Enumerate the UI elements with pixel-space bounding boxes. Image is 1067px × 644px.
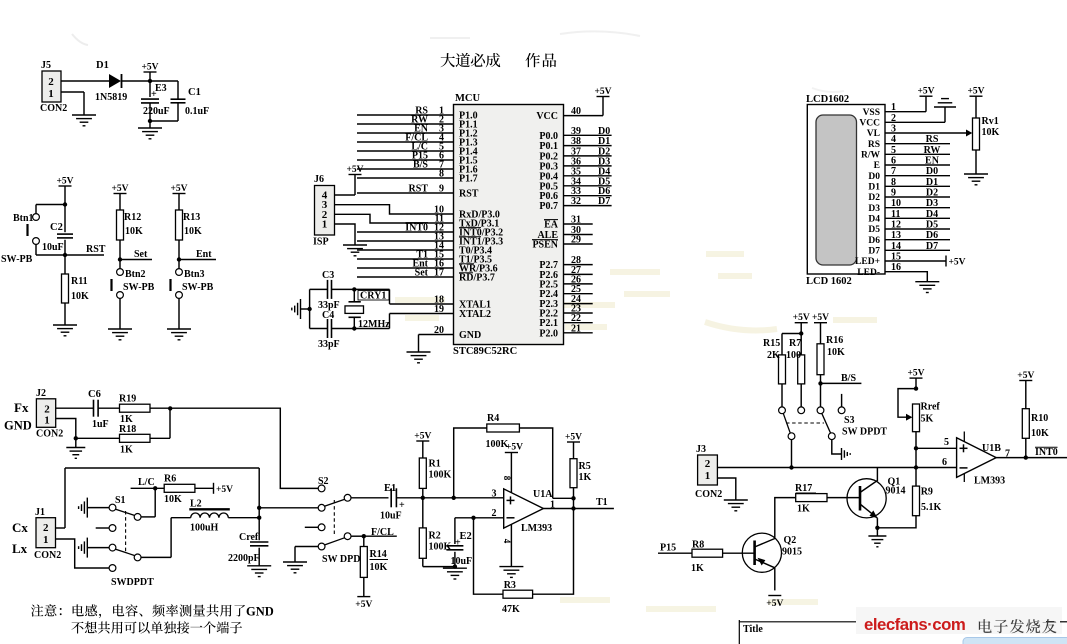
svg-text:LED+: LED+ xyxy=(855,257,880,267)
svg-text:S2: S2 xyxy=(318,476,329,487)
svg-text:VCC: VCC xyxy=(859,119,880,129)
svg-text:+5V: +5V xyxy=(216,485,233,495)
svg-text:D3: D3 xyxy=(868,204,880,214)
svg-text:R8: R8 xyxy=(692,540,704,551)
svg-text:100K: 100K xyxy=(486,439,509,450)
svg-text:+5V: +5V xyxy=(565,433,582,443)
svg-text:2: 2 xyxy=(705,458,711,470)
svg-text:1: 1 xyxy=(44,414,50,426)
svg-text:PSEN: PSEN xyxy=(532,240,558,251)
svg-text:SWDPDT: SWDPDT xyxy=(111,577,154,588)
svg-text:J2: J2 xyxy=(36,388,46,399)
svg-text:F/CL: F/CL xyxy=(371,527,394,538)
svg-text:C2: C2 xyxy=(50,222,63,233)
svg-text:+: + xyxy=(455,538,461,549)
svg-text:1: 1 xyxy=(705,470,711,482)
svg-text:Rv1: Rv1 xyxy=(982,116,999,127)
svg-text:R10: R10 xyxy=(1031,413,1048,424)
svg-text:17: 17 xyxy=(434,268,444,279)
svg-text:R11: R11 xyxy=(71,276,88,287)
svg-text:MCU: MCU xyxy=(455,93,480,104)
svg-text:+5V: +5V xyxy=(346,165,363,175)
svg-text:R13: R13 xyxy=(183,212,200,223)
svg-text:T1: T1 xyxy=(596,497,608,508)
svg-text:10uF: 10uF xyxy=(451,556,473,567)
svg-text:10K: 10K xyxy=(164,494,182,505)
svg-text:220uF: 220uF xyxy=(143,106,170,117)
svg-text:Rref: Rref xyxy=(921,402,941,413)
svg-text:GND: GND xyxy=(4,419,32,433)
svg-text:21: 21 xyxy=(571,323,581,334)
svg-text:+: + xyxy=(151,89,157,100)
svg-text:9: 9 xyxy=(439,184,444,195)
svg-text:0.1uF: 0.1uF xyxy=(185,106,209,117)
svg-text:+5V: +5V xyxy=(414,432,431,442)
svg-text:RS: RS xyxy=(926,134,939,145)
svg-text:CON2: CON2 xyxy=(36,429,63,440)
svg-text:1uF: 1uF xyxy=(92,419,109,430)
svg-text:+5V: +5V xyxy=(170,184,187,194)
svg-text:L2: L2 xyxy=(190,499,202,510)
svg-text:10K: 10K xyxy=(1031,428,1049,439)
svg-text:INT0: INT0 xyxy=(405,223,428,234)
svg-text:9015: 9015 xyxy=(782,547,802,558)
svg-text:D4: D4 xyxy=(868,215,880,225)
svg-text:elecfans·com: elecfans·com xyxy=(864,615,965,634)
svg-text:2: 2 xyxy=(43,522,49,534)
svg-text:J1: J1 xyxy=(35,507,45,518)
svg-text:R16: R16 xyxy=(826,335,843,346)
svg-text:10uF: 10uF xyxy=(380,511,402,522)
svg-text:E3: E3 xyxy=(155,83,167,94)
svg-text:+5V: +5V xyxy=(812,313,829,323)
svg-text:P1.7: P1.7 xyxy=(459,174,478,185)
svg-text:+5V: +5V xyxy=(793,313,810,323)
svg-text:+: + xyxy=(399,500,405,511)
svg-text:VL: VL xyxy=(867,129,880,139)
svg-text:XTAL2: XTAL2 xyxy=(459,309,491,320)
svg-text:D0: D0 xyxy=(868,172,880,182)
svg-text:VCC: VCC xyxy=(536,111,558,122)
svg-text:5: 5 xyxy=(944,437,949,448)
svg-text:+5V: +5V xyxy=(594,87,611,97)
svg-text:10K: 10K xyxy=(71,291,89,302)
svg-text:VSS: VSS xyxy=(863,108,880,118)
svg-text:100: 100 xyxy=(786,350,801,361)
svg-text:P0.7: P0.7 xyxy=(539,201,558,212)
svg-text:Btn2: Btn2 xyxy=(125,269,146,280)
svg-text:Btn1: Btn1 xyxy=(13,213,34,224)
svg-text:1N5819: 1N5819 xyxy=(95,92,127,103)
svg-text:10K: 10K xyxy=(125,226,143,237)
svg-text:LED-: LED- xyxy=(857,268,880,278)
svg-text:+5V: +5V xyxy=(917,87,934,97)
svg-text:10K: 10K xyxy=(370,562,388,573)
svg-text:31: 31 xyxy=(571,215,581,226)
svg-text:4: 4 xyxy=(502,539,512,544)
svg-text:R19: R19 xyxy=(119,393,136,404)
svg-text:R15: R15 xyxy=(763,338,780,349)
svg-text:D6: D6 xyxy=(926,230,938,241)
svg-text:E2: E2 xyxy=(460,531,472,542)
svg-text:20: 20 xyxy=(434,325,444,336)
svg-text:B/S: B/S xyxy=(841,373,856,384)
svg-text:+5V: +5V xyxy=(1017,371,1034,381)
svg-text:+5V: +5V xyxy=(766,599,783,609)
svg-text:SW-PB: SW-PB xyxy=(1,254,33,265)
svg-text:RS: RS xyxy=(868,140,880,150)
svg-text:D1: D1 xyxy=(868,183,880,193)
svg-text:100K: 100K xyxy=(429,542,452,553)
svg-text:32: 32 xyxy=(571,196,581,207)
svg-text:E1: E1 xyxy=(384,483,396,494)
svg-text:LM393: LM393 xyxy=(521,523,552,534)
svg-text:Btn3: Btn3 xyxy=(184,269,205,280)
svg-text:Lx: Lx xyxy=(12,541,28,556)
svg-text:+5V: +5V xyxy=(949,258,966,268)
svg-text:D6: D6 xyxy=(868,236,880,246)
svg-text:R12: R12 xyxy=(124,212,141,223)
svg-text:Ent: Ent xyxy=(196,249,212,260)
svg-text:R1: R1 xyxy=(429,459,441,470)
svg-text:D1: D1 xyxy=(926,177,938,188)
svg-text:D4: D4 xyxy=(926,209,938,220)
svg-text:2K: 2K xyxy=(767,350,780,361)
svg-text:2200pF: 2200pF xyxy=(228,553,260,564)
svg-text:1K: 1K xyxy=(120,445,133,456)
svg-text:R3: R3 xyxy=(504,580,516,591)
svg-text:U1A: U1A xyxy=(533,489,553,500)
svg-text:19: 19 xyxy=(434,304,444,315)
svg-text:R2: R2 xyxy=(429,531,441,542)
svg-text:D5: D5 xyxy=(868,225,880,235)
svg-text:D0: D0 xyxy=(926,166,938,177)
svg-text:RST: RST xyxy=(86,244,106,255)
svg-text:CRY1: CRY1 xyxy=(360,291,386,302)
svg-text:10uF: 10uF xyxy=(42,242,64,253)
svg-text:C6: C6 xyxy=(88,389,101,400)
svg-text:5K: 5K xyxy=(921,414,934,425)
svg-text:+5V: +5V xyxy=(355,600,372,610)
svg-text:+5V: +5V xyxy=(111,184,128,194)
svg-text:D2: D2 xyxy=(868,193,880,203)
svg-text:+5V: +5V xyxy=(141,63,158,73)
svg-text:RST: RST xyxy=(409,184,429,195)
svg-text:R9: R9 xyxy=(921,487,933,498)
svg-text:9014: 9014 xyxy=(886,486,906,497)
svg-text:Title: Title xyxy=(743,624,763,635)
svg-text:R/W: R/W xyxy=(861,151,881,161)
svg-text:SW-PB: SW-PB xyxy=(123,282,155,293)
svg-text:40: 40 xyxy=(571,106,581,117)
svg-text:Fx: Fx xyxy=(14,400,29,415)
svg-text:D2: D2 xyxy=(926,188,938,199)
svg-text:U1B: U1B xyxy=(982,443,1001,454)
svg-text:EA: EA xyxy=(544,220,559,231)
svg-text:1: 1 xyxy=(322,219,328,231)
svg-text:ISP: ISP xyxy=(313,237,329,248)
svg-text:LCD 1602: LCD 1602 xyxy=(806,276,852,287)
svg-text:+5V: +5V xyxy=(967,87,984,97)
svg-text:1: 1 xyxy=(48,88,54,100)
svg-text:+5V: +5V xyxy=(907,369,924,379)
svg-text:S3: S3 xyxy=(844,415,855,426)
svg-text:SW-PB: SW-PB xyxy=(182,282,214,293)
svg-text:R6: R6 xyxy=(164,474,176,485)
svg-text:1: 1 xyxy=(43,534,49,546)
svg-text:33pF: 33pF xyxy=(318,339,340,350)
svg-text:2: 2 xyxy=(492,508,497,519)
svg-text:Set: Set xyxy=(134,249,148,260)
svg-text:C3: C3 xyxy=(322,270,334,281)
svg-text:S1: S1 xyxy=(115,495,126,506)
svg-text:CON2: CON2 xyxy=(34,550,61,561)
svg-text:1K: 1K xyxy=(797,504,810,515)
svg-text:6: 6 xyxy=(942,457,947,468)
svg-text:J5: J5 xyxy=(41,60,51,71)
svg-text:J3: J3 xyxy=(696,444,706,455)
svg-text:STC89C52RC: STC89C52RC xyxy=(453,346,517,357)
svg-text:47K: 47K xyxy=(502,604,520,615)
svg-text:D7: D7 xyxy=(598,196,610,207)
svg-text:CON2: CON2 xyxy=(695,489,722,500)
svg-text:RW: RW xyxy=(924,145,941,156)
svg-text:1K: 1K xyxy=(691,563,704,574)
svg-text:D5: D5 xyxy=(926,220,938,231)
svg-text:R14: R14 xyxy=(370,549,387,560)
svg-text:+5V: +5V xyxy=(506,443,523,453)
svg-text:EN: EN xyxy=(925,156,940,167)
svg-text:GND: GND xyxy=(459,330,481,341)
svg-text:29: 29 xyxy=(571,235,581,246)
svg-text:L/C: L/C xyxy=(138,477,155,488)
svg-text:C1: C1 xyxy=(188,87,201,98)
svg-text:1K: 1K xyxy=(579,472,592,483)
svg-text:D3: D3 xyxy=(926,198,938,209)
svg-text:8: 8 xyxy=(439,169,444,180)
svg-text:INT0: INT0 xyxy=(1035,447,1058,458)
svg-text:10K: 10K xyxy=(184,226,202,237)
svg-text:E: E xyxy=(874,161,880,171)
svg-text:Set: Set xyxy=(415,268,429,279)
svg-text:P15: P15 xyxy=(660,543,676,554)
svg-text:B/S: B/S xyxy=(413,160,428,171)
svg-text:R4: R4 xyxy=(487,413,499,424)
svg-text:12MHz: 12MHz xyxy=(358,319,390,330)
svg-text:R7: R7 xyxy=(789,338,801,349)
svg-text:R17: R17 xyxy=(795,483,812,494)
svg-text:R5: R5 xyxy=(579,461,591,472)
svg-text:Cref: Cref xyxy=(239,532,259,543)
svg-text:8: 8 xyxy=(502,476,512,481)
svg-text:5.1K: 5.1K xyxy=(921,502,942,513)
svg-text:100K: 100K xyxy=(429,470,452,481)
svg-text:CON2: CON2 xyxy=(40,103,67,114)
svg-text:P2.0: P2.0 xyxy=(539,328,558,339)
svg-text:10K: 10K xyxy=(827,347,845,358)
svg-text:SW DPDT: SW DPDT xyxy=(842,427,887,438)
svg-text:LM393: LM393 xyxy=(974,476,1005,487)
svg-text:Q2: Q2 xyxy=(784,535,797,546)
svg-text:D1: D1 xyxy=(96,60,109,71)
svg-text:10K: 10K xyxy=(982,127,1000,138)
svg-text:GND: GND xyxy=(246,605,274,619)
svg-text:D7: D7 xyxy=(868,247,880,257)
svg-text:Cx: Cx xyxy=(12,520,28,535)
svg-text:R18: R18 xyxy=(119,424,136,435)
svg-text:100uH: 100uH xyxy=(190,523,219,534)
svg-text:+5V: +5V xyxy=(56,177,73,187)
svg-text:C4: C4 xyxy=(322,310,334,321)
svg-text:3: 3 xyxy=(492,489,497,500)
svg-text:LCD1602: LCD1602 xyxy=(806,94,849,105)
svg-text:D7: D7 xyxy=(926,241,938,252)
svg-text:RD/P3.7: RD/P3.7 xyxy=(459,273,495,284)
svg-text:2: 2 xyxy=(48,76,54,88)
svg-text:J6: J6 xyxy=(314,174,324,185)
svg-text:RST: RST xyxy=(459,189,479,200)
